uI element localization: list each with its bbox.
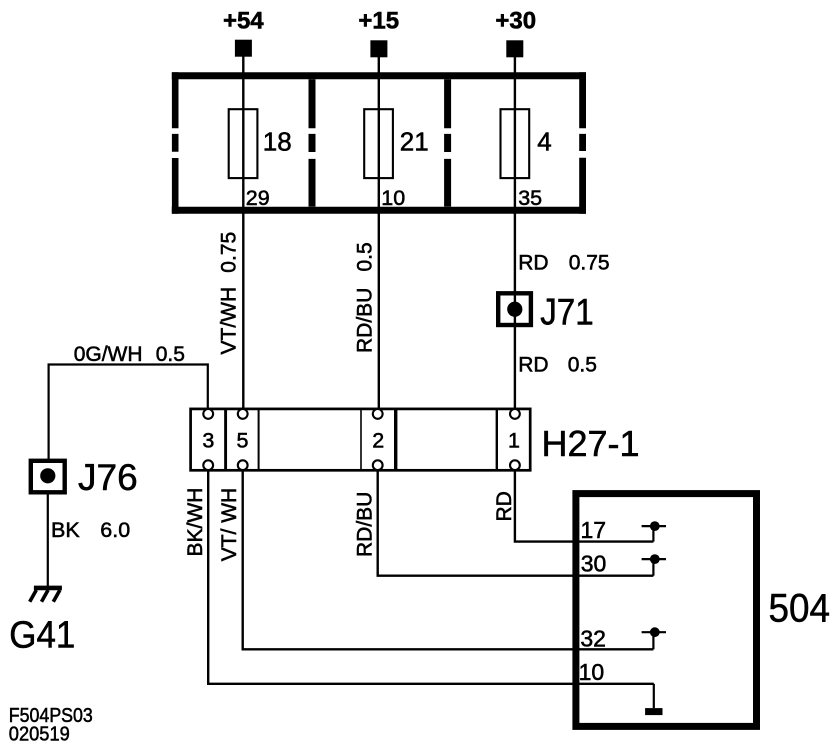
pin 3 bottom circle [203,460,213,470]
ground symbol G41 hatch 3 [53,590,60,602]
svg-text:G41: G41 [9,614,75,656]
svg-text:5: 5 [237,428,249,452]
connector H27-1 divider between pins 3 and 5 [224,409,227,470]
ground symbol G41 bar [34,586,62,591]
connector H27-1 body [191,409,531,470]
504 pin 17 contact stub [652,526,654,542]
svg-text:0.5: 0.5 [354,242,377,271]
svg-text:0G/WH: 0G/WH [74,343,143,366]
504 pin 30 contact dot [650,554,660,564]
splice J71 dot [507,302,522,317]
504 pin 17 contact dot [650,521,660,531]
ground symbol G41 hatch 1 [30,590,37,602]
wire W2 RD/BU vertical from +15 terminal through fuse 21 to H27-1 pin 2 [378,48,380,410]
svg-text:17: 17 [581,517,607,543]
504 pin 32 contact dot [650,627,660,637]
svg-text:18: 18 [263,126,292,156]
svg-text:BK: BK [51,518,80,542]
splice J76 dot [40,468,55,483]
pin 2 bottom circle [373,460,383,470]
pin 1 top circle [510,409,520,419]
svg-text:+54: +54 [223,8,264,35]
svg-text:VT/WH: VT/WH [218,287,241,355]
svg-text:RD: RD [518,251,548,274]
fuse box outline bottom edge [172,207,586,214]
component 504 box [576,494,757,727]
504 pin 10 internal ground stub [653,684,655,708]
connector H27-1 divider right of pin 2 [394,409,397,470]
svg-text:2: 2 [372,428,384,452]
terminal +15 square [370,40,387,57]
svg-text:6.0: 6.0 [100,518,130,542]
wire W1 VT/WH vertical from +54 terminal through fuse 18 to H27-1 pin 5 [242,48,244,410]
svg-text:0.75: 0.75 [218,232,241,273]
terminal +54 square [235,40,252,57]
ground symbol G41 hatch 2 [42,590,49,602]
504 pin 32 contact stub [652,632,654,649]
svg-text:32: 32 [580,625,606,651]
wire RD/BU from pin 2 to 504 pin 30 [378,470,654,575]
504 pin 30 contact stub [652,559,654,576]
svg-text:BK/WH: BK/WH [184,488,207,557]
pin 5 top circle [238,409,248,419]
svg-text:020519: 020519 [9,723,70,746]
pin 3 top circle [203,409,213,419]
504 pin 32 contact crossbar [642,631,666,633]
svg-text:+15: +15 [358,8,399,35]
svg-text:10: 10 [579,659,605,685]
fuse box outline top edge [172,72,586,79]
fuse box outline right edge (dashed) [579,72,586,214]
connector H27-1 divider left of pin 2 [360,409,362,470]
wire RD from pin 1 to 504 pin 17 [515,470,654,541]
svg-text:0.5: 0.5 [156,343,185,366]
svg-text:1: 1 [508,428,520,452]
wire 0G/WH horizontal run [49,365,208,460]
svg-text:3: 3 [202,428,214,452]
connector H27-1 divider left of pin 1 [496,409,498,470]
pin 2 top circle [373,409,383,419]
svg-text:0.5: 0.5 [568,354,597,377]
svg-text:VT/ WH: VT/ WH [218,488,241,562]
fuse 21 body [364,109,393,178]
svg-text:30: 30 [581,551,607,577]
wire W3 RD vertical from +30 terminal through fuse 4 and J71 to H27-1 pin 1 [514,48,516,410]
terminal +30 square [506,40,523,57]
fuse 4 body [501,109,530,178]
svg-text:29: 29 [246,186,270,210]
connector H27-1 divider right of pin 5 [258,409,260,470]
svg-text:4: 4 [537,126,551,156]
svg-text:0.75: 0.75 [569,251,610,274]
504 pin 10 internal ground bar [645,708,662,715]
svg-text:RD/BU: RD/BU [354,288,377,353]
svg-text:RD/BU: RD/BU [354,492,377,557]
wire VT/WH from pin 5 to 504 pin 32 [243,470,654,649]
wire BK from J76 to ground [47,492,49,587]
svg-text:H27-1: H27-1 [542,423,640,464]
504 pin 30 contact crossbar [642,558,666,560]
fuse box divider 1 (dashed) [309,79,316,206]
svg-text:504: 504 [769,587,831,631]
svg-text:10: 10 [381,186,405,210]
pin 1 bottom circle [510,460,520,470]
svg-text:+30: +30 [495,8,536,35]
fuse box divider 2 (dashed) [444,79,451,206]
svg-text:J76: J76 [78,457,138,498]
svg-text:21: 21 [400,126,429,156]
svg-text:RD: RD [518,354,548,377]
svg-text:J71: J71 [540,292,594,333]
wire BK/WH from pin 3 to 504 pin 10 [208,470,654,684]
splice J71 box [498,293,531,325]
splice J76 box [31,461,65,493]
504 pin 17 contact crossbar [642,525,666,527]
pin 5 bottom circle [238,460,248,470]
svg-text:35: 35 [518,186,542,210]
svg-text:RD: RD [493,491,516,521]
fuse box outline left edge (dashed) [172,72,179,214]
fuse 18 body [229,109,258,178]
